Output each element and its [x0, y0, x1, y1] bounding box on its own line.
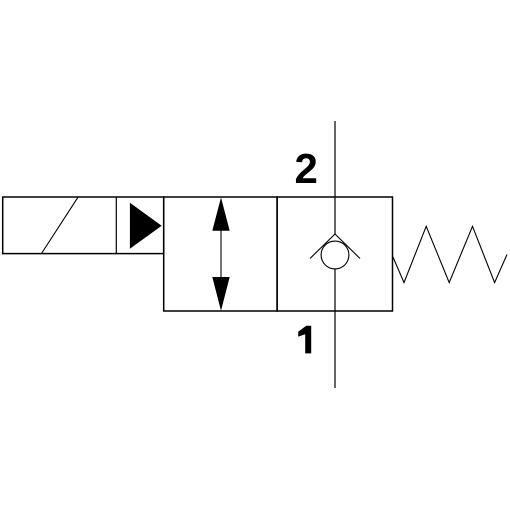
solenoid coil box [3, 197, 164, 254]
check valve ball [321, 241, 349, 269]
flow path arrowhead down [212, 277, 229, 311]
flow path double arrow shaft [220, 228, 222, 279]
solenoid diagonal stroke [42, 197, 79, 253]
check valve seat left [310, 234, 335, 259]
return spring [393, 226, 508, 282]
check valve seat right [335, 234, 360, 259]
port label 2 [296, 154, 316, 183]
solenoid divider line [115, 197, 117, 254]
flow path arrowhead up [212, 198, 229, 231]
port 1 line [334, 269, 336, 388]
valve position box right [277, 197, 392, 311]
port label 1 [298, 326, 311, 354]
valve position box left [164, 197, 277, 311]
port 2 line [334, 121, 336, 234]
actuator triangle [130, 204, 160, 248]
